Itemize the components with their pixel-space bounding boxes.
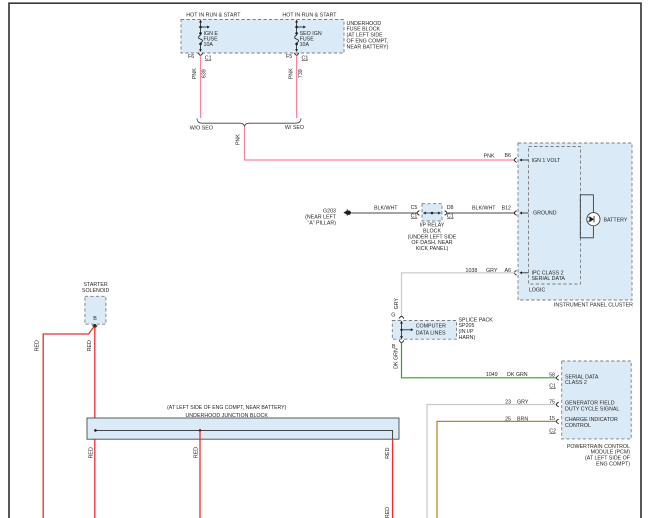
svg-text:HOT IN RUN & START: HOT IN RUN & START: [282, 12, 337, 18]
svg-text:A6: A6: [505, 268, 512, 274]
svg-text:F6: F6: [188, 54, 194, 60]
svg-text:1049: 1049: [486, 372, 498, 378]
svg-text:RED: RED: [34, 340, 40, 351]
svg-text:ENG COMPT): ENG COMPT): [596, 462, 630, 468]
svg-text:BRN: BRN: [517, 416, 528, 422]
svg-text:KICK PANEL): KICK PANEL): [416, 246, 449, 252]
svg-text:INSTRUMENT PANEL CLUSTER: INSTRUMENT PANEL CLUSTER: [554, 302, 633, 308]
svg-text:CLASS 2: CLASS 2: [565, 380, 587, 386]
svg-text:739: 739: [298, 69, 304, 78]
svg-text:GRY: GRY: [517, 400, 529, 406]
svg-text:10A: 10A: [204, 42, 214, 48]
svg-text:DK GRN: DK GRN: [507, 372, 528, 378]
svg-text:B: B: [93, 316, 97, 322]
svg-text:GRY: GRY: [486, 268, 498, 274]
svg-text:PNK: PNK: [484, 153, 495, 159]
svg-text:IGN 1 VOLT: IGN 1 VOLT: [532, 158, 562, 164]
svg-text:DUTY CYCLE SIGNAL: DUTY CYCLE SIGNAL: [565, 407, 619, 413]
svg-text:SERIAL DATA: SERIAL DATA: [532, 276, 566, 282]
svg-text:C5: C5: [411, 205, 418, 211]
svg-text:RED: RED: [193, 447, 199, 458]
svg-text:SOLENOID: SOLENOID: [82, 288, 110, 294]
svg-text:23: 23: [505, 400, 511, 406]
svg-text:25: 25: [505, 416, 511, 422]
svg-text:RED: RED: [385, 447, 391, 458]
svg-text:RED: RED: [385, 507, 391, 518]
svg-text:LOGIC: LOGIC: [529, 288, 546, 294]
svg-text:NEAR BATTERY): NEAR BATTERY): [347, 44, 389, 50]
svg-text:RED: RED: [89, 447, 95, 458]
svg-text:G: G: [391, 313, 395, 319]
svg-text:B12: B12: [502, 205, 511, 211]
svg-text:“A” PILLAR): “A” PILLAR): [307, 220, 336, 226]
svg-text:DK GRN: DK GRN: [393, 348, 399, 369]
svg-text:HOT IN RUN & START: HOT IN RUN & START: [186, 12, 241, 18]
svg-text:75: 75: [549, 400, 555, 406]
svg-text:COMPUTER: COMPUTER: [416, 324, 446, 330]
svg-text:RED: RED: [87, 340, 93, 351]
svg-text:PNK: PNK: [192, 68, 198, 79]
svg-text:639: 639: [202, 69, 208, 78]
svg-text:GROUND: GROUND: [533, 211, 557, 217]
svg-text:(AT LEFT SIDE OF ENG COMPT, NE: (AT LEFT SIDE OF ENG COMPT, NEAR BATTERY…: [167, 405, 286, 411]
svg-text:W/ SEO: W/ SEO: [285, 125, 304, 131]
svg-text:58: 58: [549, 372, 555, 378]
svg-text:BLK/WHT: BLK/WHT: [374, 206, 398, 212]
svg-text:PNK: PNK: [289, 68, 295, 79]
svg-text:10A: 10A: [300, 42, 310, 48]
svg-text:F5: F5: [286, 54, 292, 60]
svg-text:HARN): HARN): [459, 335, 476, 341]
svg-text:BATTERY: BATTERY: [604, 217, 628, 223]
svg-text:B6: B6: [505, 153, 512, 159]
svg-text:CONTROL: CONTROL: [565, 423, 591, 429]
svg-text:DATA LINES: DATA LINES: [416, 330, 446, 336]
svg-text:BLK/WHT: BLK/WHT: [472, 206, 496, 212]
svg-text:1038: 1038: [466, 268, 478, 274]
svg-text:15: 15: [549, 416, 555, 422]
svg-text:W/O SEO: W/O SEO: [190, 126, 213, 132]
svg-text:GRY: GRY: [394, 298, 400, 310]
svg-text:PNK: PNK: [235, 134, 241, 145]
svg-text:D8: D8: [447, 205, 454, 211]
